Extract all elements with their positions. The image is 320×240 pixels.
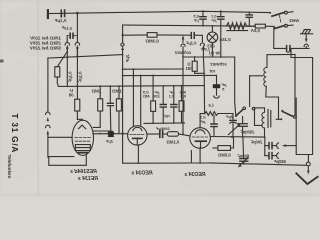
- wire heater link tube2 to tube3: [138, 162, 191, 164]
- mains switch pole 1: [269, 12, 271, 14]
- tube V3 grid dashes: [192, 136, 208, 138]
- svg-text:08: 08: [68, 93, 73, 98]
- svg-text:schwarz: schwarz: [174, 50, 191, 55]
- tube V1 filament chevron: [79, 125, 86, 129]
- wire x122.6 long vertical: [122, 49, 124, 163]
- wire R1 bottom to rail: [57, 77, 58, 86]
- svg-text:200: 200: [152, 94, 160, 99]
- coupling capacitor C12 2uF block: [108, 131, 113, 137]
- capacitor C4 series on y35.5: [191, 33, 194, 39]
- wire grid stub into tube1: [48, 136, 72, 138]
- svg-text:Nr (+): Nr (+): [208, 51, 220, 56]
- speaker rect right leg: [294, 55, 296, 116]
- svg-text:0,15A: 0,15A: [219, 37, 230, 42]
- wire top bus H1: [48, 11, 270, 13]
- chassis socket hook below C9: [216, 88, 218, 95]
- wire tube V2 anode row to coupling cap C13: [147, 133, 159, 135]
- svg-text:0,5MΩ: 0,5MΩ: [217, 153, 230, 158]
- capacitor C2 between selector wires: [73, 35, 77, 37]
- svg-text:T 31 G/A: T 31 G/A: [10, 114, 19, 154]
- plug arrow left: [66, 45, 69, 49]
- svg-text:Netz: Netz: [288, 18, 298, 23]
- wave switch arm with contacts: [235, 115, 237, 117]
- wire to fuse: [247, 25, 255, 27]
- capacitor C6 0,1uF from top bus: [220, 10, 222, 12]
- tube V1 anode box: [75, 145, 90, 151]
- svg-text:2500pF: 2500pF: [240, 130, 256, 135]
- socket arc x183: [181, 44, 185, 46]
- heater barretter zigzag on y26: [226, 23, 247, 30]
- scan artifact left edge: [0, 60, 4, 63]
- svg-text:0,1MΩ: 0,1MΩ: [166, 139, 179, 144]
- antenna plug arrow from right: [287, 145, 297, 147]
- capacitor C3: [109, 86, 111, 103]
- variable capacitor C15 2500pF with arrow: [242, 117, 244, 124]
- mains switch pole 2: [265, 25, 272, 27]
- plug arrow below circle: [121, 46, 124, 50]
- wire transformer black lead x234.7: [235, 57, 236, 116]
- node terminal bar left end: [47, 10, 49, 18]
- node dots on bus y56: [67, 56, 69, 58]
- tube V1 top lead: [77, 119, 82, 120]
- svg-text:550pF: 550pF: [274, 159, 286, 164]
- switch mechanical link dashes: [280, 16, 281, 23]
- earth symbol top right: [301, 33, 313, 35]
- speaker rect left leg: [266, 55, 268, 68]
- svg-text:0,1μF: 0,1μF: [68, 72, 73, 83]
- barretter underline: [227, 30, 248, 32]
- capacitor C14 tone with curved plate: [232, 114, 234, 121]
- fuse 0,5A: [255, 24, 265, 28]
- resistor R2 cathode 80ohm: [76, 86, 78, 99]
- capacitor C1 0,1uF series in top bus: [61, 10, 64, 17]
- svg-text:μF: μF: [200, 119, 206, 124]
- tube V3 inner dome: [195, 130, 205, 134]
- tube V3 envelope: [190, 128, 211, 149]
- svg-text:0,1μF: 0,1μF: [185, 40, 196, 45]
- tube V2 envelope: [128, 126, 147, 145]
- wire rail y86.5: [58, 85, 204, 88]
- antenna coil bracket: [255, 110, 263, 125]
- antenna branch vertical: [264, 137, 266, 156]
- node dots on rail y86.5: [67, 85, 69, 87]
- resistor R1 mains dropper: [55, 67, 60, 77]
- wire from node A down to voltage selector plug: [76, 13, 78, 41]
- svg-text:μF: μF: [193, 18, 199, 23]
- wire diagonal from selector to R1: [57, 52, 67, 67]
- earth plug arrow below circle: [307, 166, 309, 171]
- wire y69.2 screen line: [123, 68, 183, 70]
- coil core line: [267, 110, 269, 128]
- node junction dot A: [76, 12, 79, 15]
- output switch arm right: [280, 118, 282, 120]
- tube V1 envelope: [72, 120, 93, 155]
- voltage selector socket arc left: [65, 42, 69, 45]
- earth plug arrow down: [305, 34, 307, 39]
- flexible speaker lead squiggle: [205, 112, 233, 116]
- capacitor C7 across mains from top bus: [248, 12, 250, 15]
- svg-text:2μF: 2μF: [105, 139, 114, 144]
- wire bus y56: [48, 55, 123, 59]
- svg-text:1MΩ: 1MΩ: [112, 88, 122, 93]
- antenna V symbol: [296, 173, 317, 184]
- svg-text:REO34 s: REO34 s: [184, 172, 205, 178]
- bottom bus wire: [210, 163, 306, 165]
- wire x67 bus to rail: [66, 52, 68, 86]
- svg-text:rot: rot: [164, 114, 170, 119]
- wire y35.5 line: [123, 34, 148, 36]
- antenna tap capacitor upper with socket: [265, 145, 269, 147]
- earth socket arc: [304, 44, 308, 46]
- wire anode row y137: [210, 136, 264, 139]
- capacitor C16 bypass under La line: [213, 115, 215, 123]
- wire corner x122.6 down from y25: [122, 25, 124, 43]
- svg-text:La: La: [208, 102, 214, 107]
- wire phono column to tube1 area: [47, 134, 49, 158]
- svg-text:rot: rot: [209, 68, 215, 73]
- svg-text:50kΩ bei 220V: 50kΩ bei 220V: [29, 46, 61, 51]
- tube V1 grid row right: [93, 133, 109, 135]
- svg-text:0,1μF: 0,1μF: [54, 18, 66, 23]
- capacitor C8 mains antenna coupling: [287, 46, 290, 52]
- svg-text:RES164d s: RES164d s: [70, 169, 97, 175]
- tube V2 heater bracket: [123, 145, 139, 163]
- antenna tap capacitor lower with socket: [265, 155, 269, 157]
- wire cap to corner down to socket: [194, 35, 202, 42]
- plug arrow x183 pointing up to y35.5 line end: [182, 35, 185, 39]
- earth connector circle: [306, 162, 310, 166]
- tube V2 grid dashes: [130, 133, 144, 135]
- plug arrow right: [76, 45, 79, 49]
- node dot bus y56 end: [122, 54, 124, 56]
- wire coil bottom to switch: [266, 86, 279, 119]
- wire bus y25: [123, 25, 256, 26]
- svg-text:200pF: 200pF: [250, 139, 263, 144]
- capacitor C13 2000pF series: [160, 131, 163, 138]
- wire x183 down: [182, 47, 184, 134]
- wire left phono column x48: [47, 58, 49, 112]
- resistor R5 180 ohm: [194, 57, 196, 61]
- capacitor C9 electrolytic 5uF: [213, 84, 220, 88]
- wire x77 bus to rail: [76, 56, 78, 86]
- antenna coil windings: [262, 108, 265, 128]
- tube V1 grid dashes: [75, 136, 91, 138]
- phono jack plug arrow lower: [47, 117, 50, 121]
- svg-text:RE134 s: RE134 s: [78, 176, 98, 182]
- field coil windings: [264, 68, 266, 87]
- node dots on y25 bus: [202, 25, 204, 27]
- voltage selector socket arc right: [75, 42, 79, 45]
- tube V2 top leads: [133, 68, 135, 70]
- resistor R4 0,3Mohm: [147, 33, 157, 38]
- wire right edge drop x312.6: [291, 48, 313, 154]
- wire corner to electrolytic: [216, 75, 218, 83]
- svg-text:2μF: 2μF: [125, 54, 130, 63]
- svg-text:2μF: 2μF: [225, 114, 234, 119]
- svg-text:MΩ: MΩ: [142, 94, 149, 99]
- coil tap wire: [250, 75, 263, 77]
- wire field supply y75.5: [123, 74, 217, 76]
- svg-text:Telefunken: Telefunken: [7, 155, 12, 179]
- svg-text:0,5: 0,5: [180, 94, 186, 99]
- wire R4 to series cap: [157, 34, 191, 36]
- wire y57 heater feed line: [183, 56, 235, 58]
- svg-text:0,1μF: 0,1μF: [77, 72, 82, 83]
- wire C13 to resistor: [163, 133, 168, 135]
- tube V1 heater bracket: [49, 156, 74, 158]
- svg-text:081: 081: [185, 66, 193, 71]
- wire y123.3 joining line: [144, 122, 185, 125]
- resistor R8 0,1Mohm pill: [167, 132, 178, 137]
- socket arc x202: [200, 43, 204, 45]
- tube V3 heater bracket: [191, 151, 210, 164]
- phono jack socket arc upper: [46, 112, 50, 114]
- speaker rectangle top: [267, 54, 295, 56]
- wire coupling to tube V2: [113, 133, 127, 135]
- lamp dial light: [207, 32, 218, 43]
- capacitor C5 0,5uF from top bus: [202, 10, 204, 12]
- svg-text:1,9W: 1,9W: [200, 47, 211, 52]
- tube V3 anode bar: [195, 140, 206, 142]
- svg-text:0,5A: 0,5A: [251, 28, 260, 33]
- tube V1 base bar: [79, 152, 88, 154]
- svg-text:schwarz: schwarz: [209, 61, 226, 66]
- tube V2 inner dome: [133, 127, 142, 130]
- svg-text:2000pF: 2000pF: [155, 126, 170, 131]
- svg-text:μF: μF: [211, 18, 217, 23]
- wire coil bottom down: [264, 128, 266, 137]
- svg-text:REO34 s: REO34 s: [131, 170, 152, 176]
- wire x204 down to output stage: [203, 57, 204, 114]
- grid-cap connector circle on x122.6: [121, 43, 124, 46]
- wire x296 vertical down to earth connector: [296, 98, 308, 162]
- wire tube V3 anode top lead: [200, 114, 205, 128]
- tube V2 anode bar: [133, 137, 142, 139]
- wire switch pole2 down to antenna coupling: [274, 27, 287, 49]
- wire into tube V1 right: [93, 130, 110, 132]
- svg-text:0,3MΩ: 0,3MΩ: [145, 38, 159, 43]
- plug arrow below C5 into socket x202: [202, 45, 205, 49]
- resistor R9 0,5Mohm: [213, 147, 218, 149]
